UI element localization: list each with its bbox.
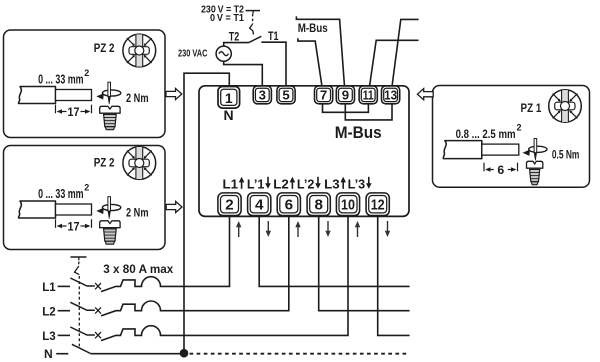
svg-text:230 VAC: 230 VAC [178,49,208,60]
svg-text:6: 6 [497,163,504,177]
svg-text:9: 9 [342,88,349,103]
svg-text:3: 3 [259,88,266,103]
svg-text:T2: T2 [229,31,240,43]
svg-text:2: 2 [517,123,522,133]
svg-text:L3: L3 [324,177,340,191]
svg-text:L1: L1 [223,177,239,191]
svg-text:L’2: L’2 [297,177,315,191]
svg-text:PZ 1: PZ 1 [521,103,542,115]
svg-text:2: 2 [225,196,233,213]
svg-text:17: 17 [68,219,80,233]
svg-text:0 ... 33 mm: 0 ... 33 mm [38,72,84,87]
svg-text:0.5 Nm: 0.5 Nm [552,148,580,162]
svg-text:12: 12 [371,196,385,213]
svg-text:L3: L3 [42,329,56,343]
svg-text:2 Nm: 2 Nm [126,206,149,220]
svg-text:4: 4 [255,196,264,213]
svg-text:13: 13 [384,88,397,103]
svg-text:2: 2 [84,183,89,193]
svg-text:0 ... 33 mm: 0 ... 33 mm [38,186,84,201]
svg-text:M-Bus: M-Bus [335,123,382,142]
svg-text:N: N [44,347,53,361]
svg-text:L2: L2 [273,177,289,191]
svg-text:10: 10 [341,196,355,213]
svg-text:17: 17 [68,105,80,119]
svg-text:L2: L2 [42,304,56,318]
svg-text:T1: T1 [268,31,279,43]
svg-text:0.8 ... 2.5 mm: 0.8 ... 2.5 mm [456,127,516,141]
svg-text:N: N [223,107,233,123]
svg-text:PZ 2: PZ 2 [94,158,115,170]
svg-text:PZ 2: PZ 2 [94,43,115,55]
svg-text:6: 6 [285,196,293,213]
svg-text:L’1: L’1 [247,177,265,191]
svg-text:L’3: L’3 [348,177,366,191]
svg-text:2 Nm: 2 Nm [126,91,149,105]
svg-text:M-Bus: M-Bus [298,21,328,35]
svg-text:5: 5 [282,88,289,103]
svg-text:11: 11 [363,88,374,103]
svg-text:2: 2 [84,68,89,78]
svg-text:L1: L1 [42,280,56,294]
svg-text:0 V = T1: 0 V = T1 [210,13,244,24]
svg-text:1: 1 [225,90,233,106]
svg-text:8: 8 [314,196,322,213]
svg-text:7: 7 [320,88,327,103]
svg-text:3 x 80 A max: 3 x 80 A max [103,263,174,276]
